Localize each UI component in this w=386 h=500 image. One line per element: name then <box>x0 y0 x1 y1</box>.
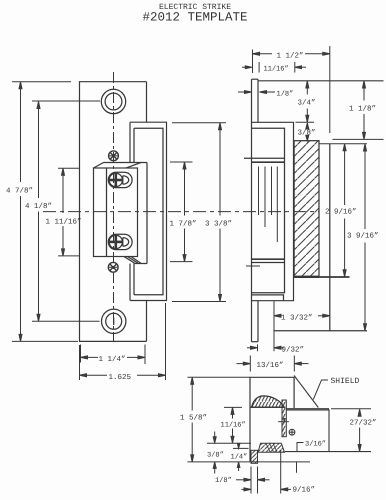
jamb hatched section <box>294 141 319 277</box>
svg-text:1/8”: 1/8” <box>215 476 232 485</box>
svg-text:1 1/2”: 1 1/2” <box>277 52 304 61</box>
jamb box right <box>285 409 371 451</box>
dim 1 1/8 <box>333 81 384 139</box>
keeper slot oval upper <box>108 172 132 187</box>
keeper top edge (side) <box>244 157 285 159</box>
keeper bottom face <box>124 257 147 264</box>
dim 3/4 <box>306 81 309 122</box>
bar arrow <box>283 418 286 424</box>
keeper bottom edge (side) <box>252 258 285 260</box>
3/16 bracket <box>297 443 304 452</box>
dim 3 3/8 <box>172 123 226 302</box>
svg-text:1.625: 1.625 <box>109 373 132 382</box>
svg-text:3/8”: 3/8” <box>298 129 316 138</box>
faceplate outline (front view) <box>80 82 147 342</box>
jamb face line <box>258 80 384 82</box>
strike body outer (front view) <box>130 122 167 300</box>
dim 9/16 <box>242 450 292 494</box>
svg-text:1/8”: 1/8” <box>277 89 294 98</box>
svg-text:1 5/8”: 1 5/8” <box>180 414 207 423</box>
ext thick 2 9/16 bottom <box>319 276 350 278</box>
dim 1/8 strip <box>238 91 275 94</box>
dim 9/32 <box>247 344 284 351</box>
keeper pocket line <box>106 168 108 257</box>
ext vertical x274 <box>273 301 275 351</box>
dim 1 5/8 <box>188 377 251 462</box>
dim 1 3/32 <box>274 314 330 317</box>
keeper bottom ext tick left <box>246 265 260 267</box>
bottom mounting hole <box>102 309 126 333</box>
small screw lower <box>108 262 118 272</box>
bar tick <box>278 421 289 423</box>
svg-text:3 9/16”: 3 9/16” <box>347 232 379 241</box>
svg-text:1 1/4”: 1 1/4” <box>99 355 126 364</box>
svg-text:1 7/8”: 1 7/8” <box>170 220 197 229</box>
svg-text:4 7/8”: 4 7/8” <box>6 187 33 196</box>
dim 3/8 (bottom view) <box>213 432 216 474</box>
dim 3/8 (side) <box>306 123 309 141</box>
shield triangle <box>294 376 318 408</box>
body inner (side view) <box>252 128 285 293</box>
dim 1 7/8 <box>170 162 193 262</box>
horizontal centerline <box>43 211 319 213</box>
keeper right face <box>146 163 148 264</box>
screw hole symbol <box>289 429 295 435</box>
svg-text:1 1/8”: 1 1/8” <box>349 105 376 114</box>
dome base line <box>250 406 285 408</box>
svg-text:1 3/32”: 1 3/32” <box>281 314 313 323</box>
outer box <box>250 377 294 461</box>
dim 13/16 <box>237 356 309 372</box>
dim 2 9/16 <box>343 144 346 277</box>
dim 1.625 <box>80 303 166 380</box>
shield leader <box>313 380 328 400</box>
svg-text:2 9/16”: 2 9/16” <box>325 208 357 217</box>
dim 27/32 <box>358 409 361 451</box>
dim 3 9/16 <box>364 144 367 331</box>
jamb inner vertical <box>329 144 331 331</box>
faceplate edge strip <box>252 79 259 342</box>
svg-text:9/16”: 9/16” <box>293 486 316 495</box>
dim 4 1/8 <box>32 101 100 321</box>
hatched keeper bar <box>258 443 285 452</box>
phillips screw upper <box>109 173 122 186</box>
keeper slot oval lower <box>108 234 132 249</box>
svg-text:#2012 TEMPLATE: #2012 TEMPLATE <box>142 11 247 25</box>
hatch bottom thick edge <box>294 276 319 278</box>
slot inner D lower <box>123 238 129 247</box>
shield plate thick <box>286 408 329 411</box>
dim 1/4 <box>233 443 249 471</box>
jamb bottom line <box>274 330 367 332</box>
dim 1 1/4 <box>81 345 146 365</box>
svg-text:27/32”: 27/32” <box>350 419 377 428</box>
dim 1 1/2 <box>253 46 330 133</box>
ext 27/32 top <box>331 408 371 410</box>
latch internal lines <box>259 167 278 243</box>
body outer (side view) <box>251 122 294 300</box>
svg-text:13/16”: 13/16” <box>257 361 284 370</box>
ext body top right <box>296 121 315 123</box>
keeper top edge 2 (side) <box>252 161 285 163</box>
svg-text:1/4”: 1/4” <box>231 453 248 462</box>
phillips screw lower <box>109 235 122 248</box>
svg-text:3/4”: 3/4” <box>298 99 316 108</box>
dim 11/16 (bottom view) <box>224 407 242 443</box>
hatched dome <box>252 396 285 407</box>
small screw upper <box>109 151 119 161</box>
dim 4 7/8 <box>12 82 78 342</box>
body bottom step <box>251 295 284 301</box>
top mounting hole <box>101 89 125 113</box>
strike body inner <box>134 128 163 295</box>
dim 1/8 (bottom view) <box>236 467 270 494</box>
svg-text:1 11/16”: 1 11/16” <box>46 218 82 227</box>
svg-text:3 3/8”: 3 3/8” <box>205 220 232 229</box>
svg-text:9/32”: 9/32” <box>282 345 305 354</box>
keeper top face <box>94 163 148 169</box>
dim 11/16 <box>242 62 306 73</box>
keeper bottom edge 2 (side) <box>252 262 285 264</box>
vertical centerline <box>113 72 115 341</box>
keeper front face <box>94 168 138 257</box>
svg-text:4 1/8”: 4 1/8” <box>25 202 52 211</box>
svg-text:11/16”: 11/16” <box>264 64 289 73</box>
svg-text:11/16”: 11/16” <box>221 421 246 430</box>
faceplate section hatched <box>251 450 258 463</box>
svg-text:3/16”: 3/16” <box>305 440 326 449</box>
slot inner D upper <box>123 176 129 185</box>
bottom long line <box>188 461 311 463</box>
ext line y443 <box>207 442 251 444</box>
dim 1 11/16 <box>58 168 79 256</box>
hatched lip bar <box>282 400 286 437</box>
ext hatch top <box>319 143 367 145</box>
svg-text:3/8”: 3/8” <box>207 451 224 460</box>
tick below jamb <box>296 462 298 473</box>
svg-text:SHIELD: SHIELD <box>331 377 360 386</box>
